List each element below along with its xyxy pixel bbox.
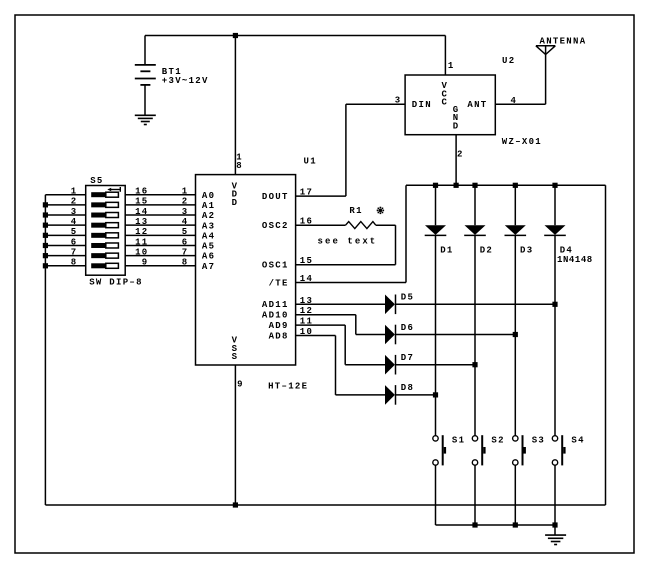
wire bottom rail — [45, 504, 605, 506]
svg-text:3: 3 — [182, 207, 189, 217]
svg-text:/TE: /TE — [269, 278, 289, 288]
svg-text:12: 12 — [135, 227, 148, 237]
battery BT1 plate short 2 — [140, 84, 150, 86]
svg-text:D8: D8 — [401, 383, 414, 393]
diode D3 — [505, 185, 527, 435]
U2 pin name GND — [453, 105, 460, 131]
svg-text:OSC1: OSC1 — [262, 261, 289, 271]
svg-text:9: 9 — [237, 380, 244, 390]
svg-text:2: 2 — [457, 149, 464, 159]
U1 left pin numbers — [182, 187, 189, 268]
svg-text:S1: S1 — [452, 435, 465, 445]
svg-text:6: 6 — [71, 237, 78, 247]
wire U2 pin 4 ANT — [495, 103, 545, 105]
diode D1 — [425, 185, 447, 435]
RF module U2 body — [405, 75, 495, 135]
svg-text:D6: D6 — [401, 323, 414, 333]
svg-text:8: 8 — [236, 161, 243, 171]
svg-text:AD9: AD9 — [269, 321, 289, 331]
diode rail junctions — [433, 183, 558, 188]
ground bottom right — [545, 525, 566, 545]
wire left address bus — [44, 195, 46, 505]
svg-text:AD10: AD10 — [262, 311, 289, 321]
svg-text:OSC2: OSC2 — [262, 221, 289, 231]
encoder U1 body — [196, 175, 296, 365]
wires S5 to U1 — [125, 195, 195, 266]
svg-text:5: 5 — [71, 227, 78, 237]
diode D8 and wiring — [296, 336, 439, 405]
svg-text:HT–12E: HT–12E — [268, 382, 308, 392]
wire U1 VSS to bottom rail — [234, 365, 236, 505]
svg-text:A7: A7 — [202, 262, 215, 272]
svg-text:16: 16 — [135, 187, 148, 197]
U1 right pin numbers — [300, 188, 313, 337]
svg-text:2: 2 — [71, 197, 78, 207]
svg-text:4: 4 — [71, 217, 78, 227]
dip switch S5 body — [86, 186, 126, 276]
svg-text:9: 9 — [142, 258, 149, 268]
wire U2 pin 1 from rail — [444, 36, 446, 76]
S5 position-1 indicator — [107, 187, 120, 192]
wire right vertical to bottom rail — [605, 185, 607, 505]
svg-text:WZ–X01: WZ–X01 — [502, 137, 542, 147]
U1 pin names right side — [262, 192, 289, 341]
antenna symbol — [536, 46, 555, 104]
svg-text:S2: S2 — [491, 435, 504, 445]
wire U1 VDD from rail — [234, 36, 236, 175]
wire DOUT from U1 pin 17 — [296, 195, 346, 197]
svg-text:+3V~12V: +3V~12V — [162, 76, 209, 86]
wire VDD top rail — [145, 35, 445, 37]
node VSS junction — [233, 502, 238, 507]
svg-text:6: 6 — [182, 237, 189, 247]
svg-text:14: 14 — [135, 207, 148, 217]
svg-text:1: 1 — [71, 187, 78, 197]
battery BT1 plate short 1 — [140, 70, 150, 72]
wire U2 pin 2 GND down — [455, 135, 457, 186]
svg-text:S4: S4 — [571, 435, 584, 445]
wire switch common rail — [436, 524, 556, 526]
switch rail junctions — [472, 522, 557, 527]
svg-text:D: D — [453, 121, 460, 131]
S5 switch actuators — [91, 192, 118, 268]
wire DOUT vertical — [345, 104, 347, 196]
svg-text:S5: S5 — [90, 176, 103, 186]
wire /TE from U1 pin 14 — [296, 282, 406, 284]
node U2 pin2 junction — [454, 183, 459, 188]
U1 pin name VSS — [232, 336, 239, 362]
pin 18 label — [236, 153, 243, 172]
svg-text:D2: D2 — [480, 246, 493, 256]
battery BT1 plate long 2 — [135, 78, 156, 80]
svg-text:ANT: ANT — [467, 100, 487, 110]
wire U2 pin 3 DIN — [346, 103, 405, 105]
pushbutton S4 — [552, 435, 565, 525]
wire battery negative lead — [144, 85, 146, 115]
pushbutton S1 — [433, 435, 446, 525]
svg-text:S3: S3 — [532, 435, 545, 445]
bus junctions — [43, 202, 48, 268]
svg-text:A3: A3 — [202, 221, 215, 231]
diode D4 — [544, 185, 566, 435]
svg-text:3: 3 — [395, 96, 402, 106]
svg-text:1: 1 — [448, 61, 455, 71]
svg-text:R1: R1 — [349, 206, 362, 216]
svg-text:ANTENNA: ANTENNA — [540, 37, 587, 47]
svg-text:D1: D1 — [440, 246, 453, 256]
svg-text:D5: D5 — [401, 293, 414, 303]
ground below battery — [135, 115, 156, 124]
diode D5 and wiring — [296, 295, 558, 315]
svg-text:A5: A5 — [202, 242, 215, 252]
U2 pin name VCC — [441, 81, 448, 107]
svg-text:8: 8 — [71, 258, 78, 268]
svg-text:3: 3 — [71, 207, 78, 217]
node VDD junction to U1 pin 18 — [233, 33, 238, 38]
wire OSC1 to U1 pin 15 — [296, 264, 396, 266]
wire OSC2 to R1 — [296, 224, 346, 226]
svg-text:D7: D7 — [401, 353, 414, 363]
S5 right pin numbers — [135, 187, 148, 268]
svg-text:A4: A4 — [202, 231, 215, 241]
svg-text:DIN: DIN — [412, 100, 432, 110]
U1 pin names A0-A7 — [202, 191, 215, 272]
diode D7 and wiring — [296, 325, 478, 374]
wire diode anode rail — [406, 184, 606, 186]
resistor R1 — [346, 222, 376, 229]
svg-text:U2: U2 — [502, 56, 515, 66]
svg-text:A0: A0 — [202, 191, 215, 201]
svg-text:A1: A1 — [202, 201, 215, 211]
pushbutton S3 — [513, 435, 526, 525]
svg-text:7: 7 — [182, 247, 189, 257]
svg-text:10: 10 — [135, 247, 148, 257]
svg-text:AD11: AD11 — [262, 300, 289, 310]
svg-text:D4: D4 — [560, 246, 573, 256]
diode D6 and wiring — [296, 315, 518, 345]
svg-text:7: 7 — [71, 247, 78, 257]
wire R1 down to OSC1 — [395, 225, 397, 265]
svg-text:13: 13 — [135, 217, 148, 227]
svg-text:5: 5 — [182, 227, 189, 237]
svg-text:A6: A6 — [202, 252, 215, 262]
svg-text:1N4148: 1N4148 — [557, 255, 594, 265]
svg-text:D: D — [232, 198, 239, 208]
battery BT1 plate long 1 — [135, 64, 156, 66]
svg-text:DOUT: DOUT — [262, 192, 289, 202]
svg-text:2: 2 — [182, 197, 189, 207]
svg-text:4: 4 — [511, 96, 518, 106]
pushbutton S2 — [472, 435, 485, 525]
wire R1 to corner — [376, 224, 396, 226]
svg-text:C: C — [441, 98, 448, 108]
wires bus to S5 — [45, 195, 85, 266]
svg-text:11: 11 — [135, 237, 148, 247]
wire battery positive lead — [144, 36, 146, 65]
S5 left pin numbers — [71, 187, 78, 268]
svg-text:17: 17 — [300, 188, 313, 198]
wire /TE up to diode rail — [405, 185, 407, 282]
svg-text:15: 15 — [135, 197, 148, 207]
svg-text:D3: D3 — [520, 246, 533, 256]
svg-text:U1: U1 — [304, 157, 317, 167]
svg-text:A2: A2 — [202, 211, 215, 221]
svg-text:4: 4 — [182, 217, 189, 227]
diode D2 — [464, 185, 486, 435]
svg-text:AD8: AD8 — [269, 331, 289, 341]
svg-text:1: 1 — [182, 187, 189, 197]
svg-text:see text: see text — [318, 236, 377, 246]
svg-text:8: 8 — [182, 258, 189, 268]
svg-text:SW DIP–8: SW DIP–8 — [89, 277, 143, 287]
svg-text:S: S — [232, 352, 239, 362]
U1 pin name VDD — [232, 182, 239, 208]
